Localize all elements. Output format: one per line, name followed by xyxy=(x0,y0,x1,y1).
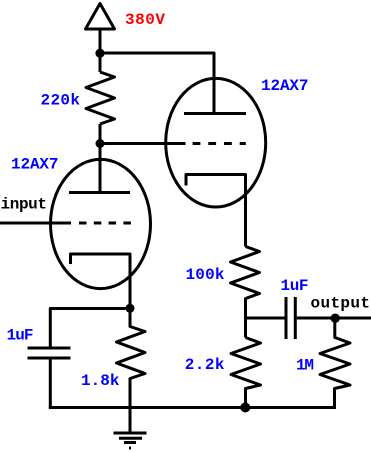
svg-text:12AX7: 12AX7 xyxy=(261,77,309,95)
svg-text:380V: 380V xyxy=(125,11,165,29)
svg-text:1M: 1M xyxy=(296,357,314,375)
svg-text:2.2k: 2.2k xyxy=(185,356,225,374)
svg-text:220k: 220k xyxy=(41,92,81,110)
svg-text:100k: 100k xyxy=(186,266,225,284)
svg-text:1.8k: 1.8k xyxy=(81,372,120,390)
svg-text:input: input xyxy=(1,196,48,214)
svg-text:1uF: 1uF xyxy=(7,327,34,345)
svg-text:1uF: 1uF xyxy=(281,277,309,295)
svg-text:output: output xyxy=(311,295,371,313)
svg-text:12AX7: 12AX7 xyxy=(11,156,59,174)
